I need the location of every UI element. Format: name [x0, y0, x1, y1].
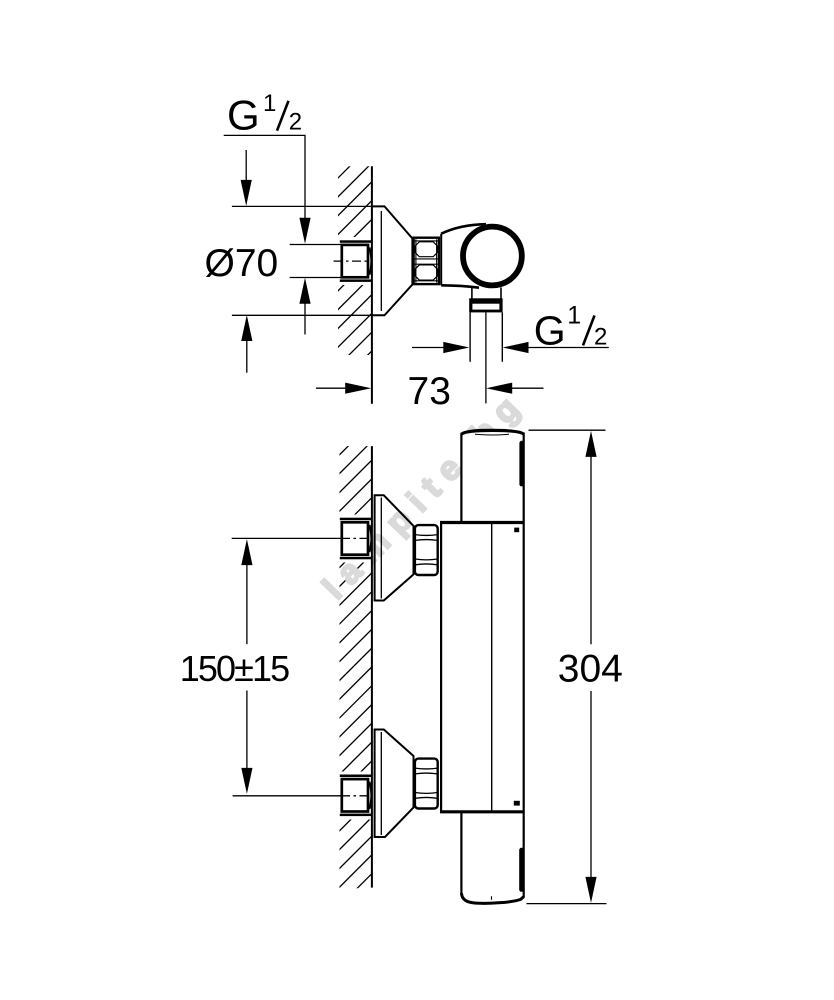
- escutcheon upper (front view): [375, 495, 414, 600]
- mixer body (front view): [440, 429, 525, 903]
- dimension 73 (wall to hose axis): [316, 387, 347, 389]
- thermostat head circle (side view): [463, 227, 522, 286]
- wall union square nut (side view): [340, 240, 372, 282]
- svg-text:304: 304: [558, 647, 623, 690]
- svg-text:73: 73: [408, 370, 451, 413]
- hex union nut (side view): [413, 238, 439, 284]
- extension line O70 top: [232, 205, 385, 207]
- wall hatching (front view): [0, 418, 834, 898]
- dimension O70: [205, 242, 279, 285]
- svg-text:2: 2: [289, 109, 302, 136]
- svg-text:Ø70: Ø70: [205, 242, 279, 285]
- O70 upper arrow shaft: [245, 150, 247, 181]
- hose collar: [469, 298, 502, 312]
- leader line from G1/2: [224, 134, 306, 136]
- dimension 150 +- 15: [232, 537, 341, 539]
- O70 dim line upper: [290, 244, 341, 246]
- hex union nut upper (front view): [415, 525, 438, 575]
- svg-text:1: 1: [567, 302, 581, 330]
- wall hatching (side view): [106, 150, 834, 410]
- outlet nipple: [472, 288, 501, 299]
- svg-text:G: G: [227, 92, 260, 139]
- dimension 304: [529, 429, 606, 431]
- wall union square lower (front view): [340, 775, 372, 817]
- hose tube: [470, 312, 502, 403]
- wall face line (front view): [371, 446, 373, 887]
- escutcheon cone (side view): [373, 206, 413, 315]
- svg-text:2: 2: [594, 323, 607, 350]
- extension line O70 bottom: [232, 314, 385, 316]
- svg-text:1: 1: [263, 90, 276, 117]
- hex union nut lower (front view): [415, 759, 438, 809]
- escutcheon lower (front view): [375, 730, 414, 838]
- O70 lower arrow: [241, 315, 252, 341]
- dimension G 1/2 (hose thread): [412, 347, 444, 349]
- svg-text:150±15: 150±15: [180, 648, 289, 689]
- arrow to union thread top: [299, 218, 310, 244]
- wall union square upper (front view): [340, 518, 372, 560]
- label G 1/2 (wall thread, top left): [227, 90, 302, 139]
- valve body (side view): [441, 224, 486, 288]
- union thread bottom arrow: [299, 278, 310, 304]
- svg-text:G: G: [534, 307, 566, 353]
- O70 dim line lower: [290, 277, 341, 279]
- wall face line (side view): [371, 166, 373, 404]
